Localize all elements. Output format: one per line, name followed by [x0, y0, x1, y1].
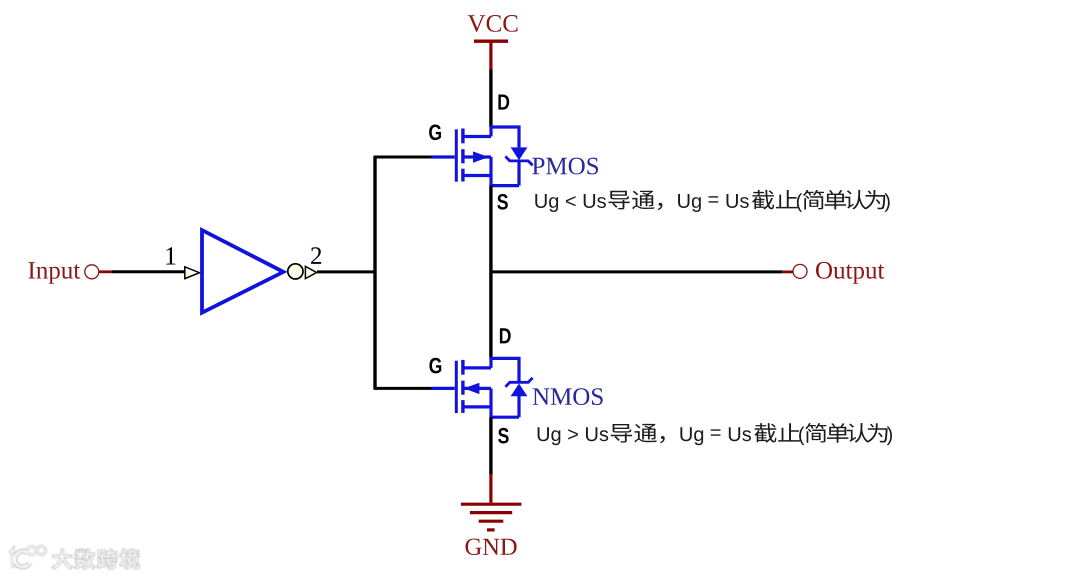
watermark logo	[9, 546, 139, 568]
wire bus to PMOS gate	[374, 156, 432, 159]
node 1 label	[166, 247, 175, 264]
wire output horizontal	[491, 270, 782, 273]
annotation text line 2 (NMOS behavior)	[538, 423, 892, 445]
output stub wire (red)	[782, 270, 793, 273]
ground	[461, 474, 522, 555]
wire NMOS source to ground	[489, 417, 492, 474]
output terminal circle	[793, 264, 807, 278]
power port VCC	[468, 15, 518, 70]
label PMOS	[532, 158, 598, 175]
inverter output arrowhead	[305, 266, 316, 278]
wire PMOS source to output node	[489, 186, 492, 359]
label NMOS	[533, 388, 603, 405]
net label Output	[816, 262, 884, 284]
wire VCC to PMOS drain	[489, 70, 492, 128]
inverter input arrowhead	[185, 267, 200, 279]
wire gate bus vertical	[373, 157, 376, 388]
pin label G (PMOS gate)	[429, 124, 441, 140]
pin label D (PMOS drain)	[498, 95, 509, 110]
pin label D (NMOS drain)	[500, 328, 511, 343]
pin label S (PMOS source)	[497, 194, 508, 210]
wire inverter output to gate bus	[317, 270, 375, 273]
node 2 label	[311, 247, 321, 264]
inverter U1 triangle	[202, 230, 283, 313]
pin label S (NMOS source)	[498, 428, 509, 444]
net label Input	[28, 262, 80, 284]
transistor Q1 PMOS symbol	[432, 127, 533, 186]
pin label G (NMOS gate)	[429, 358, 441, 374]
annotation text line 1 (PMOS behavior)	[535, 190, 889, 212]
inverter output bubble	[288, 264, 303, 279]
input stub wire (red)	[99, 270, 112, 273]
wire input to inverter	[112, 270, 185, 273]
input terminal circle	[85, 265, 99, 279]
wire bus to NMOS gate	[374, 387, 432, 390]
transistor Q2 NMOS symbol	[432, 358, 533, 417]
